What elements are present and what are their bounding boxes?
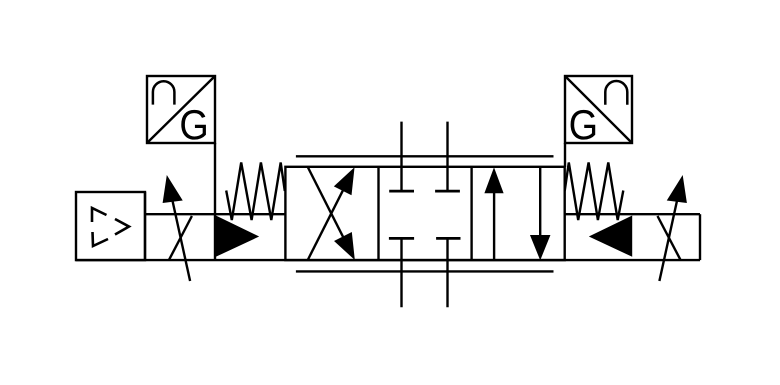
transducer T2 inductive symbol (605, 81, 627, 105)
solenoid S1 cross line (169, 216, 192, 260)
parallel flow arrow up (485, 169, 503, 260)
position transducer T2 box (565, 76, 632, 143)
wire from transducer T2 to valve edge (564, 143, 566, 167)
solenoid S1 box (145, 192, 285, 260)
valve position divider 2 (470, 167, 472, 260)
amplifier symbol triangle (92, 208, 129, 246)
crossed flow arrow down-right (308, 168, 354, 259)
port P blocked T-bar (389, 237, 414, 240)
solenoid S1 proportional arrow (163, 176, 190, 281)
port line B top (446, 122, 448, 192)
solenoid S2 proportional arrow (659, 176, 686, 281)
amplifier box U1 (76, 192, 145, 260)
crossed flow arrow up-right (308, 169, 354, 260)
solenoid S1 triangle (216, 216, 258, 256)
port B blocked T-bar (435, 190, 460, 193)
port T blocked T-bar (436, 237, 460, 240)
solenoid S2 cross line (658, 216, 681, 260)
solenoid S2 box (76, 214, 700, 260)
valve envelope (285, 167, 564, 260)
solenoid S2 triangle (590, 216, 632, 256)
wire from transducer T1 to solenoid divider (214, 143, 216, 260)
spring right (565, 163, 624, 221)
port line T bottom (446, 238, 448, 307)
transducer T2 label G (571, 110, 596, 140)
valve position divider 1 (377, 167, 379, 260)
port A blocked T-bar (389, 190, 414, 193)
spring left (226, 163, 285, 221)
position transducer T1 box (147, 76, 215, 143)
proportional line top (296, 155, 554, 157)
transducer T1 label G (181, 110, 206, 140)
proportional line bottom (296, 270, 554, 272)
transducer T1 inductive symbol (153, 81, 175, 104)
port line P bottom (400, 238, 402, 307)
port line A top (400, 122, 402, 192)
parallel flow arrow down (531, 167, 550, 259)
